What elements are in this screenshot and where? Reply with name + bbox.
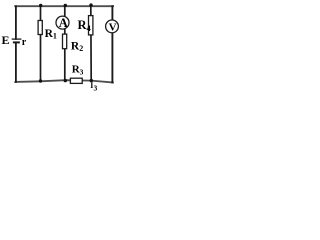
node bottom R4 junction bbox=[90, 79, 93, 82]
wire bottom bbox=[15, 80, 113, 82]
svg-text:r: r bbox=[22, 37, 27, 48]
resistor R1 bbox=[38, 21, 42, 35]
wire R1 branch bbox=[40, 6, 42, 81]
node top R4 junction bbox=[89, 3, 92, 6]
node bottom R1 junction bbox=[39, 79, 42, 82]
wire top bbox=[15, 5, 113, 7]
resistor R3 bbox=[70, 78, 82, 83]
node top ammeter junction bbox=[64, 4, 67, 7]
svg-text:R1: R1 bbox=[45, 28, 57, 41]
voltmeter V bbox=[106, 20, 119, 33]
svg-text:R3: R3 bbox=[72, 64, 84, 77]
wire right upper (voltmeter branch) bbox=[111, 6, 113, 20]
svg-text:R2: R2 bbox=[71, 40, 83, 53]
svg-text:A: A bbox=[59, 16, 68, 30]
battery cell E with internal resistance r bbox=[12, 39, 22, 42]
node top R1 junction bbox=[39, 4, 42, 7]
wire left upper (E branch) bbox=[15, 6, 17, 39]
node bottom ammeter junction bbox=[64, 79, 67, 82]
wire R4 branch bbox=[90, 6, 92, 80]
wire right lower (voltmeter branch) bbox=[111, 32, 113, 83]
resistor R4 bbox=[89, 16, 93, 35]
ammeter A bbox=[56, 16, 69, 30]
wire left lower (E branch) bbox=[15, 43, 17, 82]
resistor R2 bbox=[63, 34, 67, 49]
svg-text:3: 3 bbox=[94, 84, 98, 93]
svg-text:V: V bbox=[109, 21, 117, 33]
svg-text:E: E bbox=[2, 33, 10, 47]
wire ammeter/R2 branch bbox=[64, 6, 66, 80]
